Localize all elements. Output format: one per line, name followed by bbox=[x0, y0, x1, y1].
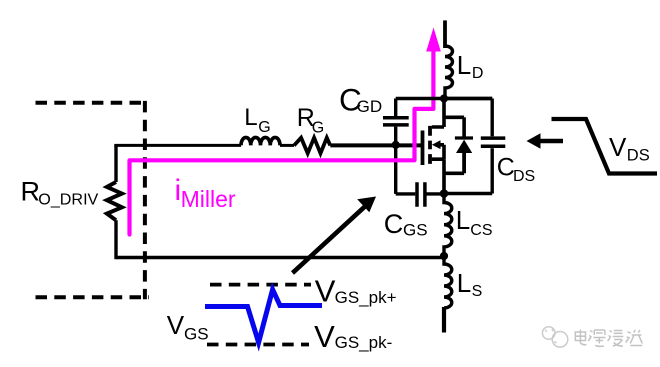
svg-text:CS: CS bbox=[470, 222, 492, 239]
inductor L_CS bbox=[444, 194, 452, 257]
label L_CS bbox=[456, 205, 493, 239]
node L_S dot bbox=[440, 252, 448, 260]
svg-text:L: L bbox=[457, 268, 471, 298]
label C_DS bbox=[497, 153, 535, 185]
wire top rail redrawn over magenta bbox=[396, 97, 493, 100]
wire C_GS right plate to source node bbox=[426, 192, 444, 195]
capacitor C_DS plates bbox=[481, 138, 506, 146]
V_DS arrow bbox=[539, 139, 563, 144]
svg-text:GD: GD bbox=[357, 97, 383, 116]
inductor L_S bbox=[444, 256, 452, 308]
resistor R_G bbox=[294, 138, 330, 154]
node drain dot bbox=[440, 94, 448, 102]
i_Miller magenta current path bbox=[130, 50, 434, 235]
svg-text:S: S bbox=[472, 283, 483, 300]
svg-text:L: L bbox=[456, 205, 470, 235]
wire source return bbox=[116, 256, 444, 259]
V_GS dashed line top bbox=[210, 283, 311, 287]
wire R_G to gate bar bbox=[330, 143, 421, 147]
label V_GS_pk+ bbox=[315, 274, 397, 309]
svg-text:R: R bbox=[21, 177, 41, 207]
V_GS blue waveform bbox=[205, 290, 322, 343]
svg-text:O_DRIV: O_DRIV bbox=[38, 192, 98, 209]
svg-text:L: L bbox=[244, 104, 257, 131]
driver dashed box bbox=[36, 101, 150, 299]
label V_GS_pk- bbox=[314, 319, 392, 354]
label V_GS bbox=[167, 310, 209, 344]
node source dot bbox=[440, 189, 449, 198]
capacitor C_GD branch: top vertical bbox=[394, 99, 397, 117]
svg-text:GS: GS bbox=[403, 221, 428, 240]
svg-text:L: L bbox=[457, 50, 471, 80]
wire driver loop left vertical (bottom part) bbox=[114, 220, 117, 259]
wire between L_G and R_G bbox=[280, 144, 294, 147]
V_DS waveform bbox=[552, 119, 658, 174]
watermark logo icon bbox=[542, 327, 567, 347]
wire top rail to C_DS bbox=[444, 97, 492, 100]
MOSFET channel dashes bbox=[428, 126, 432, 164]
annotation arrow to gate node bbox=[293, 206, 367, 274]
body diode D1 bbox=[444, 117, 473, 173]
i_Miller magenta arrowhead bbox=[426, 28, 441, 52]
svg-text:G: G bbox=[312, 120, 324, 137]
node gate dot bbox=[392, 141, 400, 149]
label V_DS bbox=[609, 132, 650, 164]
MOSFET source stub bbox=[432, 159, 444, 193]
label L_S bbox=[457, 268, 482, 300]
svg-text:V: V bbox=[315, 274, 336, 309]
wire to C_GS left plate bbox=[396, 192, 416, 195]
wire above L_D bbox=[443, 20, 447, 48]
MOSFET body arrow bbox=[439, 145, 445, 159]
svg-text:V: V bbox=[167, 310, 185, 340]
svg-text:G: G bbox=[258, 119, 270, 136]
capacitor C_GD bottom vertical bbox=[394, 127, 397, 145]
svg-text:V: V bbox=[314, 319, 335, 354]
label L_D bbox=[457, 50, 484, 82]
MOSFET Q1 gate bar bbox=[421, 131, 425, 166]
capacitor C_DS top vertical bbox=[491, 99, 494, 137]
svg-text:V: V bbox=[609, 132, 627, 162]
inductor L_D bbox=[445, 46, 453, 99]
wire drain to diode top bbox=[444, 116, 464, 120]
label i_Miller bbox=[175, 174, 236, 212]
capacitor C_GS left vertical from gate node bbox=[394, 145, 397, 194]
label C_GS bbox=[384, 209, 428, 240]
capacitor C_GD plates bbox=[383, 118, 409, 125]
MOSFET drain stub bbox=[432, 99, 444, 128]
V_GS dashed line bottom bbox=[207, 343, 309, 347]
wire driver loop left vertical (top part) bbox=[114, 146, 117, 183]
svg-text:GS_pk+: GS_pk+ bbox=[335, 288, 397, 307]
svg-text:Miller: Miller bbox=[181, 186, 236, 212]
svg-text:C: C bbox=[384, 209, 404, 239]
resistor R_O_DRIV bbox=[107, 182, 122, 220]
svg-text:DS: DS bbox=[513, 168, 535, 185]
label R_O_DRIV bbox=[21, 177, 99, 209]
svg-text:D: D bbox=[472, 65, 484, 82]
svg-text:GS: GS bbox=[184, 325, 209, 344]
label L_G bbox=[244, 104, 271, 136]
label C_GD bbox=[339, 82, 382, 118]
capacitor C_DS bottom vertical bbox=[491, 148, 494, 193]
wire C_DS to source node bbox=[444, 192, 492, 195]
svg-text:DS: DS bbox=[627, 147, 650, 165]
svg-text:GS_pk-: GS_pk- bbox=[335, 333, 393, 352]
inductor L_G bbox=[241, 137, 280, 145]
watermark text 电源漫谈 (drawn strokes) bbox=[575, 330, 642, 347]
label R_G bbox=[297, 104, 324, 137]
wire gate horizontal from driver to L_G bbox=[114, 144, 241, 147]
capacitor C_GS plates bbox=[417, 182, 425, 207]
